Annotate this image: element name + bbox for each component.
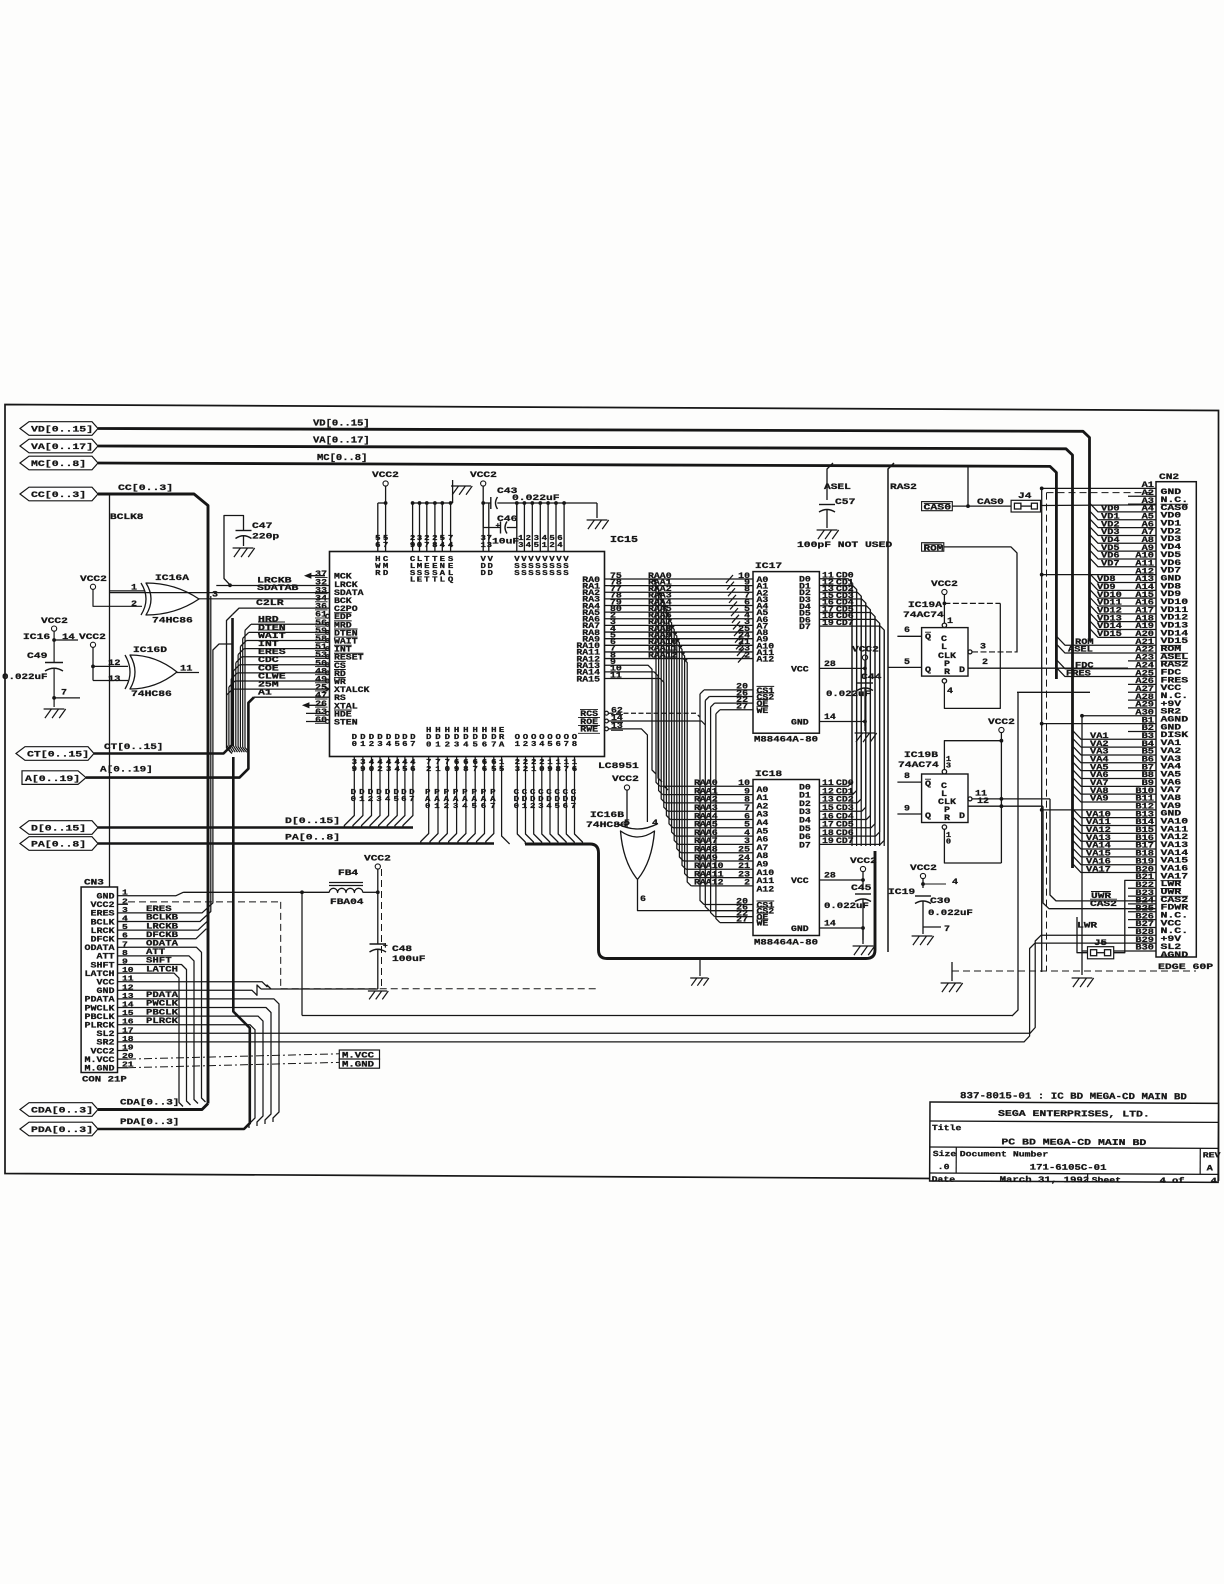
wire IC16A output to IC15 BCK [199,598,330,600]
connector CN3 pin rows [85,890,135,1074]
svg-text:C45: C45 [851,883,871,893]
IC16 pin 7 wire [52,688,80,700]
svg-text:4: 4 [546,803,552,811]
svg-text:B2: B2 [1142,725,1155,733]
bus PA[0..8] wire [98,833,494,844]
svg-text:17: 17 [822,822,834,830]
svg-text:D[0..15]: D[0..15] [285,816,340,826]
svg-text:A[0..19]: A[0..19] [100,765,153,775]
svg-text:4: 4 [395,766,401,774]
svg-text:A6: A6 [757,837,769,845]
svg-text:M88464A-80: M88464A-80 [754,939,818,948]
svg-text:L: L [941,644,947,652]
svg-text:RAA12: RAA12 [648,652,678,660]
wire LWR B21 to J5 [1114,880,1128,952]
svg-text:C2LR: C2LR [256,599,284,608]
svg-text:5: 5 [534,542,540,550]
svg-text:0.022uF: 0.022uF [512,493,560,503]
wire bundle IC15 control pins to CT bus [227,624,330,752]
svg-text:C: C [941,636,947,644]
wire ROM to IC19A clock [944,547,1017,653]
svg-text:VA13: VA13 [1086,835,1111,843]
svg-text:RAA8: RAA8 [694,847,718,855]
svg-text:4: 4 [652,819,658,828]
svg-text:M.GND: M.GND [85,1065,115,1074]
svg-text:3: 3 [454,741,460,749]
svg-text:4: 4 [385,796,391,804]
svg-text:5: 5 [491,766,497,774]
svg-text:VA5: VA5 [1090,764,1109,772]
svg-text:0: 0 [351,796,357,804]
svg-text:5: 5 [402,766,408,774]
svg-text:D4: D4 [799,818,811,826]
svg-text:RAA10: RAA10 [694,863,724,871]
svg-text:19: 19 [822,838,834,846]
bus entry PDA[0..3] [20,1122,98,1136]
svg-text:LC8951: LC8951 [598,761,639,771]
svg-text:A0: A0 [757,787,769,795]
svg-text:12: 12 [822,788,834,796]
svg-text:GND: GND [791,926,809,934]
svg-text:A9: A9 [1142,545,1155,553]
svg-text:10: 10 [738,780,750,788]
IC15 bottom pin labels O1-O8 [515,734,578,749]
svg-text:VD1: VD1 [1101,513,1120,521]
wire bundle RAA0-RAA12 from IC15 to IC17 [605,573,754,663]
wire ROM tap A21 [1056,636,1128,647]
svg-text:WR: WR [334,679,346,687]
svg-text:VCC: VCC [791,878,809,886]
svg-text:A24: A24 [1135,662,1154,670]
svg-text:17: 17 [122,1027,134,1035]
svg-text:B17: B17 [1135,843,1154,851]
svg-text:B3: B3 [1142,733,1155,741]
svg-text:ROM: ROM [1075,639,1094,647]
svg-text:11: 11 [610,672,622,680]
svg-text:B22: B22 [1135,882,1154,890]
flip-flop IC19A 74AC74 [903,600,968,677]
wire ERES riser [128,644,232,914]
svg-text:VA12: VA12 [1086,827,1111,835]
svg-text:CAS0: CAS0 [924,505,952,513]
svg-text:6: 6 [556,741,562,749]
wire RA13 RA14 RA15 down [605,659,669,790]
xor gate IC16A 74HC86 [131,573,218,626]
svg-text:CN2: CN2 [1159,472,1179,482]
svg-text:IC18: IC18 [755,769,782,779]
svg-text:A: A [499,741,505,749]
bus VD[0..15] wire [98,419,1090,642]
svg-text:CON 21P: CON 21P [82,1076,127,1085]
svg-text:A1: A1 [258,689,272,698]
svg-text:A: A [1207,1164,1213,1173]
svg-text:BCLK8: BCLK8 [110,512,144,522]
svg-text:CLK: CLK [938,799,956,807]
drawing border frame [5,405,1219,1181]
svg-text:2: 2 [523,766,528,774]
svg-text:CT[0..15]: CT[0..15] [27,750,89,760]
svg-text:7: 7 [61,688,67,698]
svg-text:XTALCK: XTALCK [334,687,370,695]
ground below C44 [855,722,877,743]
svg-text:PC BD MEGA-CD MAIN BD: PC BD MEGA-CD MAIN BD [1001,1137,1146,1148]
wire A1 from A bus [254,696,330,698]
power VCC2 at IC15 top left pins [372,470,399,503]
svg-text:25: 25 [738,847,750,855]
svg-text:A23: A23 [1135,655,1154,663]
svg-text:PLRCK: PLRCK [146,1017,178,1026]
svg-text:S: S [514,570,520,578]
wire IC17 CS1 CS2 OE WE [700,684,753,714]
svg-text:PA[0..8]: PA[0..8] [285,833,340,843]
svg-text:D5: D5 [799,826,811,834]
svg-text:VD13: VD13 [1097,615,1122,623]
svg-text:B16: B16 [1135,835,1154,843]
svg-text:PDA[0..3]: PDA[0..3] [31,1125,93,1135]
svg-text:5: 5 [904,658,910,667]
svg-text:2: 2 [530,803,535,811]
svg-text:C48: C48 [392,944,412,954]
svg-text:3: 3 [453,803,459,811]
wire from J5 to LWR net [1077,917,1097,953]
svg-text:A18: A18 [1135,615,1154,623]
svg-text:MC[0..8]: MC[0..8] [317,453,367,463]
wire IC19A pin5 from RAS2 [888,658,922,667]
wire IC19A clock output pin3 [968,643,1017,654]
svg-text:D3: D3 [799,809,811,817]
svg-text:FDC: FDC [1075,662,1094,670]
svg-text:FRES: FRES [1066,670,1091,678]
svg-text:1: 1 [947,617,953,626]
svg-text:0: 0 [445,766,451,774]
svg-text:A3: A3 [757,812,769,820]
svg-text:6: 6 [482,741,488,749]
svg-text:7: 7 [744,805,750,813]
svg-text:A30: A30 [1135,709,1154,717]
svg-text:A14: A14 [1135,584,1154,592]
wire bundle RAA0-RAA12 to IC18 [652,579,753,888]
svg-text:8: 8 [556,766,562,774]
wire BCLKB riser [128,596,211,923]
svg-text:IC19B: IC19B [904,750,938,760]
svg-text:VCC2: VCC2 [988,717,1015,727]
wire bundle VD8-VD15 taps [1090,573,1129,639]
svg-text:CD3: CD3 [836,805,854,813]
ferrite bead FB4 FBA04 [329,868,364,907]
wire IC19B pin8 [897,772,921,782]
svg-text:VCC2: VCC2 [364,854,391,864]
svg-text:M.GND: M.GND [342,1062,374,1070]
svg-text:A11: A11 [1135,561,1154,569]
svg-text:VA9: VA9 [1090,796,1109,804]
svg-text:B30: B30 [1135,945,1154,953]
svg-text:RAA1: RAA1 [694,788,718,796]
svg-text:7: 7 [564,766,569,774]
svg-text:1: 1 [435,741,441,749]
bus entry CDA[0..3] [20,1103,98,1117]
dram IC18 M88464A-80 [753,769,819,948]
ground below C47 [233,548,255,557]
svg-text:15: 15 [122,1010,134,1018]
svg-text:3: 3 [377,741,383,749]
wire bundle CD0-CD7 from IC15 to CD bus [514,757,583,845]
svg-text:6: 6 [375,542,381,550]
ground below CD bus [690,959,709,986]
svg-text:B6: B6 [1142,757,1155,765]
svg-text:20: 20 [122,1053,134,1061]
svg-text:10uF: 10uF [492,537,519,547]
power VCC2 at IC19A preset [931,579,958,623]
svg-text:0.022uF: 0.022uF [2,672,48,682]
svg-text:4: 4 [952,878,958,887]
svg-text:B21: B21 [1135,874,1154,882]
svg-text:J4: J4 [1018,491,1031,501]
svg-text:VD12: VD12 [1097,608,1122,616]
svg-text:6: 6 [572,766,578,774]
svg-text:1: 1 [122,890,128,898]
svg-text:9: 9 [410,542,416,550]
svg-text:5: 5 [122,924,128,932]
svg-text:VA17: VA17 [1086,866,1111,874]
bus CC[0..3] wire down to CDA [98,483,208,1104]
svg-text:13: 13 [108,674,120,684]
svg-text:9: 9 [360,766,365,774]
power VCC2 at IC15 VDD pins [470,470,497,578]
svg-text:A12: A12 [1135,568,1154,576]
svg-text:5: 5 [744,822,750,830]
svg-text:27: 27 [736,916,748,924]
svg-text:A22: A22 [1135,647,1154,655]
svg-text:0.022uF: 0.022uF [826,690,871,699]
svg-text:C47: C47 [252,521,272,531]
wire ERA pin 15 [499,757,510,845]
svg-text:VCC2: VCC2 [80,574,107,584]
svg-text:Sheet: Sheet [1092,1177,1122,1185]
svg-text:36: 36 [315,604,327,612]
svg-text:D: D [959,813,965,821]
IC15 left pin names and numbers [315,571,370,727]
svg-text:VD[0..15]: VD[0..15] [31,425,93,435]
IC16 power pins label [23,632,106,642]
svg-text:VA1: VA1 [1090,733,1109,741]
bus entry VA[0..17] [20,439,98,453]
svg-text:REV: REV [1203,1152,1221,1160]
svg-text:VA11: VA11 [1086,819,1111,827]
bus D[0..15] wire [98,816,413,828]
svg-text:1: 1 [434,803,440,811]
svg-text:7: 7 [410,741,415,749]
net label box CAS0 [922,502,953,513]
svg-text:PDA[0..3]: PDA[0..3] [120,1117,179,1127]
ground below connector AGND [1072,978,1094,987]
svg-text:A16: A16 [1135,600,1154,608]
svg-text:A7: A7 [757,845,769,853]
wire IC17 GND pin 14 [819,714,866,723]
svg-text:1: 1 [542,542,548,550]
svg-text:Q: Q [448,577,454,585]
power VCC2 at C49 [41,616,78,663]
svg-text:E: E [417,577,423,585]
svg-text:B4: B4 [1142,741,1155,749]
svg-text:WE: WE [757,708,769,716]
svg-text:VCC2: VCC2 [79,632,106,642]
svg-text:A19: A19 [1135,623,1154,631]
svg-text:6: 6 [563,803,569,811]
wire bundle ODATA ATT SHFT LATCH to CDA [128,940,206,1107]
svg-text:VD8: VD8 [1097,576,1116,584]
svg-text:14: 14 [824,921,836,929]
svg-text:CDA[0..3]: CDA[0..3] [120,1098,179,1108]
svg-text:74HC86: 74HC86 [131,689,172,699]
svg-text:S: S [549,570,555,578]
svg-text:B29: B29 [1135,937,1154,945]
svg-text:837-8015-01 : IC BD MEGA-CD M: 837-8015-01 : IC BD MEGA-CD MAIN BD [960,1090,1187,1102]
svg-text:11: 11 [822,780,834,788]
svg-text:B24: B24 [1135,898,1154,906]
capacitor C57 100pF NOT USED [797,497,892,550]
svg-text:LATCH: LATCH [146,965,178,974]
svg-text:CAS2: CAS2 [1090,900,1117,909]
svg-text:L: L [941,791,947,799]
svg-text:3: 3 [518,542,524,550]
svg-text:171-6105C-01: 171-6105C-01 [1030,1162,1107,1172]
svg-text:ROM: ROM [924,545,944,553]
svg-text:7: 7 [424,542,430,550]
svg-text:A2: A2 [757,803,769,811]
wire LRCKB [216,576,329,587]
svg-text:A10: A10 [757,870,775,878]
svg-text:CD6: CD6 [836,830,854,838]
ground below C45 [853,928,875,955]
svg-text:Q: Q [925,634,931,642]
svg-text:9: 9 [454,766,459,774]
svg-text:Document Number: Document Number [960,1151,1049,1159]
power VCC2 at IC16A [80,574,142,606]
ground below C49 [44,698,66,718]
svg-text:8: 8 [463,766,469,774]
svg-text:B15: B15 [1135,827,1154,835]
svg-text:D7: D7 [799,842,811,850]
svg-text:VD6: VD6 [1101,553,1120,561]
svg-text:SDATAB: SDATAB [257,584,299,593]
svg-text:CDA[0..3]: CDA[0..3] [31,1106,93,1116]
capacitor C49 0.022uF [2,651,63,698]
svg-text:STEN: STEN [334,720,358,728]
svg-text:A8: A8 [757,853,769,861]
svg-text:B8: B8 [1142,772,1155,780]
svg-text:VD14: VD14 [1097,623,1122,631]
svg-text:Size: Size [933,1151,957,1159]
svg-text:IC16B: IC16B [590,810,624,820]
svg-text:S: S [521,570,527,578]
svg-text:D: D [488,570,494,578]
svg-text:2: 2 [744,880,750,888]
svg-text:CLK: CLK [938,653,956,661]
svg-text:74HC86: 74HC86 [586,820,627,830]
svg-text:WE: WE [757,921,769,929]
svg-text:A13: A13 [1135,576,1154,584]
svg-text:9: 9 [744,788,750,796]
svg-text:A28: A28 [1135,694,1154,702]
svg-text:3: 3 [744,838,750,846]
svg-text:VCC2: VCC2 [910,863,937,873]
svg-text:2: 2 [369,741,374,749]
capacitor C43 0.022uF [483,486,559,509]
svg-text:VCC2: VCC2 [372,470,399,480]
svg-text:21: 21 [122,1062,134,1070]
bus entry A[0..19] [22,771,86,785]
svg-text:1: 1 [515,741,521,749]
svg-text:2: 2 [426,766,431,774]
svg-text:L: L [410,577,416,585]
shield dashed around audio section [128,869,596,989]
svg-text:SDATA: SDATA [334,590,364,598]
svg-text:FBA04: FBA04 [330,897,364,907]
svg-text:0: 0 [514,803,520,811]
svg-text:RAA11: RAA11 [694,871,724,879]
wire IC18 CS1 CS2 OE WE [700,694,753,925]
svg-text:19: 19 [822,620,834,628]
svg-text:R: R [375,570,381,578]
bus entry CT[0..15] [16,747,94,761]
svg-text:MCK: MCK [334,574,352,582]
svg-text:VCC2: VCC2 [612,774,639,784]
svg-text:28: 28 [824,661,836,669]
svg-text:7: 7 [491,741,496,749]
wire bundle PDATA PWCLK PBCLK PLRCK to PDA [128,991,279,1128]
wire IC16B output 6 to IC18 CS2 [638,880,754,911]
bus A[0..19] wire [86,697,254,777]
net ASEL wire from MC bus [824,463,851,500]
svg-text:RAS2: RAS2 [890,482,917,492]
svg-text:3: 3 [531,741,537,749]
power VCC2 at IC19B [988,717,1015,743]
svg-text:A7: A7 [1142,529,1155,537]
svg-text:47: 47 [315,693,327,701]
svg-text:12: 12 [977,797,989,806]
net label box ROM [922,543,944,554]
svg-text:5: 5 [394,796,400,804]
svg-text:VCC: VCC [791,666,809,674]
bus CT[0..15] wire [94,618,233,754]
svg-text:0: 0 [417,542,423,550]
svg-text:A1: A1 [757,795,769,803]
svg-text:T: T [424,577,430,585]
svg-text:8: 8 [572,741,578,749]
svg-text:9: 9 [122,959,128,967]
svg-text:IC16D: IC16D [133,645,167,655]
svg-text:VCC2: VCC2 [931,579,958,589]
wire CN3 pins 11 12 [128,982,271,996]
wire bundle PA0-PA7 to PA bus [421,757,497,844]
wire bundle VD0-VD7 taps [1090,503,1129,569]
net labels HRD DTEN WAIT INT ERES CDC COE CLWE 25M A1 [258,616,286,698]
svg-text:6: 6 [401,796,407,804]
svg-text:3: 3 [386,766,392,774]
svg-text:VD2: VD2 [1101,521,1120,529]
svg-text:28: 28 [824,873,836,881]
svg-text:SEGA ENTERPRISES, LTD.: SEGA ENTERPRISES, LTD. [998,1109,1150,1120]
svg-text:R: R [944,815,950,823]
svg-text:7: 7 [383,542,389,550]
svg-text:CT[0..15]: CT[0..15] [104,742,163,752]
svg-text:VCC2: VCC2 [470,470,497,480]
svg-text:VD15: VD15 [1097,631,1122,639]
svg-text:S: S [528,570,534,578]
svg-text:0: 0 [539,766,545,774]
svg-text:1: 1 [435,766,441,774]
svg-text:IC19A: IC19A [908,600,943,610]
